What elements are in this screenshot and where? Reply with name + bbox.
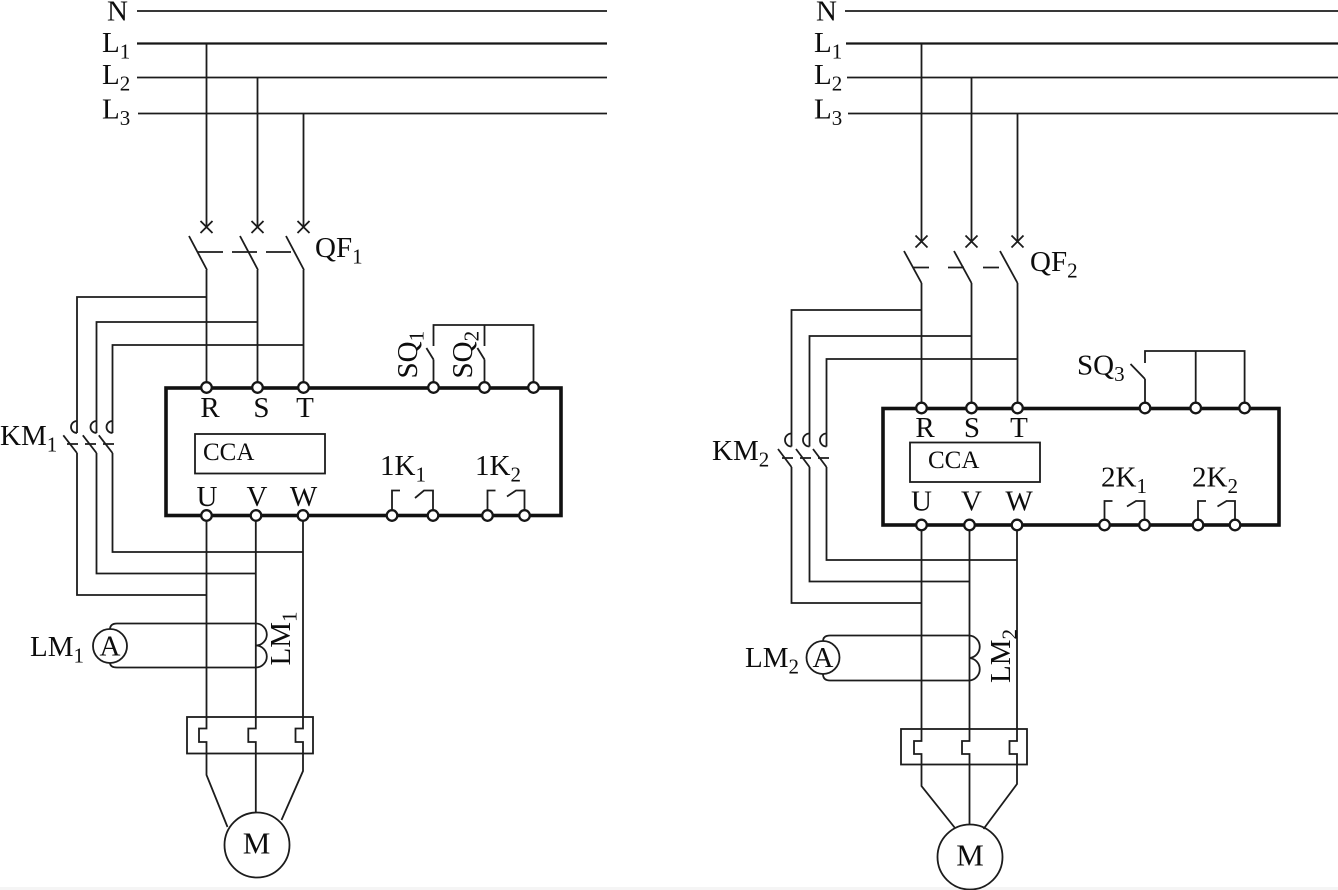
terminal 2K2 a	[1193, 520, 1204, 531]
terminal T right	[1012, 403, 1023, 414]
terminal SQ1 in	[428, 382, 439, 393]
CT loop bottom wire right	[823, 674, 970, 681]
wire L2 drop to QF2 pole 2	[971, 78, 973, 242]
QF2 pole 1 blade	[904, 251, 922, 283]
SQ1 blade	[426, 348, 433, 360]
KM1 pole 1 blade	[63, 435, 77, 453]
wire L2 drop to QF1 pole 2	[257, 78, 259, 228]
svg-text:T: T	[1010, 412, 1028, 444]
KM2 pole 2 arc	[803, 434, 809, 447]
svg-text:CCA: CCA	[203, 439, 254, 466]
QF2 pole 2 blade	[954, 251, 972, 283]
1K1 right bracket and blade	[415, 491, 433, 511]
ammeter A circle	[93, 629, 127, 663]
wire branch T-phase to KM1 pole3	[113, 345, 304, 433]
terminal 1K1 b	[428, 510, 439, 521]
page bottom edge shading	[0, 887, 1338, 890]
terminal R right	[916, 403, 927, 414]
terminal SQ3 in	[1140, 403, 1151, 414]
breaker QF2	[904, 236, 1078, 284]
contact 1K1	[380, 450, 433, 511]
KM1 pole 3 arc	[107, 421, 113, 433]
terminal W	[298, 510, 309, 521]
2K1 right bracket and blade	[1127, 501, 1145, 520]
terminal W right	[1012, 520, 1023, 531]
2K2 right bracket and blade	[1218, 501, 1236, 520]
terminal S right	[966, 403, 977, 414]
SQ3 blade	[1131, 364, 1146, 379]
KM1 pole 1 arc	[71, 421, 77, 433]
KM1 pole 3 blade	[99, 435, 113, 453]
terminal aux right	[1239, 403, 1250, 414]
KM2 pole 1 arc	[785, 434, 792, 447]
svg-text:R: R	[200, 392, 220, 424]
terminal aux in	[528, 382, 539, 393]
SQ3 lower lead	[1144, 379, 1146, 403]
wire W down with FR2 heater detour	[984, 531, 1018, 830]
terminal U	[201, 510, 212, 521]
svg-text:T: T	[296, 392, 314, 424]
motor circle	[225, 813, 290, 878]
ammeter LM2	[745, 629, 1022, 683]
wire V down with FR1 heater detour	[248, 521, 256, 813]
terminal S	[252, 382, 263, 393]
terminal T	[298, 382, 309, 393]
svg-text:A: A	[813, 642, 834, 674]
wire L1 drop to QF1 pole 1	[206, 44, 208, 228]
terminal SQ2 in	[479, 382, 490, 393]
contactor KM2	[712, 434, 834, 472]
wire branch S-phase to KM2 pole2	[810, 336, 972, 447]
terminal V	[251, 510, 262, 521]
wire QF1 pole3 out	[303, 270, 305, 383]
contact 2K2	[1192, 462, 1238, 521]
wire KM1 pole2 down	[97, 453, 256, 574]
overload relay FR1 box	[187, 717, 313, 754]
terminal 2K2 b	[1230, 520, 1241, 531]
svg-text:M: M	[956, 838, 984, 873]
breaker QF1	[189, 221, 363, 270]
terminal 1K1 a	[387, 510, 398, 521]
svg-text:W: W	[290, 481, 318, 513]
svg-text:U: U	[197, 481, 218, 513]
inverter U1 box	[166, 388, 561, 516]
limit switch SQ1	[392, 325, 534, 383]
motor M1	[225, 813, 290, 878]
KM2 pole 3 blade	[813, 449, 827, 467]
wire bus L1	[137, 42, 607, 44]
1K2 right bracket and blade	[507, 491, 525, 511]
motor M2	[938, 825, 1003, 890]
KM1 linkage dashed bar	[67, 443, 119, 445]
QF2 pole 1 cross	[916, 236, 928, 248]
SQ1 jumper wire	[434, 325, 534, 383]
wire KM2 pole1 down	[792, 467, 922, 603]
SQ2 blade	[477, 348, 484, 360]
KM1 pole 2 blade	[83, 435, 97, 453]
CCA module box (right)	[910, 443, 1040, 483]
SQ3 jumper wire	[1145, 351, 1245, 403]
wire L3 drop to QF2 pole 3	[1017, 114, 1019, 242]
QF1 linkage dashed bar	[198, 251, 296, 253]
terminal 2K1 b	[1139, 520, 1150, 531]
KM2 pole 1 blade	[778, 449, 792, 467]
wire branch S-phase to KM1 pole2	[97, 322, 258, 433]
CT winding bumps on V	[256, 624, 267, 668]
QF2 linkage dashed bar	[913, 267, 1014, 269]
terminal 1K2 b	[519, 510, 530, 521]
KM2 pole 3 arc	[820, 434, 826, 447]
svg-text:U: U	[911, 486, 932, 518]
wire bus L3	[138, 113, 607, 115]
terminal aux mid right	[1190, 403, 1201, 414]
inverter U2 box	[883, 409, 1279, 526]
wire L1 drop to QF2 pole 1	[921, 44, 923, 242]
SQ3 jumper middle lead	[1195, 351, 1197, 403]
CT loop top wire	[110, 624, 256, 630]
limit switch SQ3	[1077, 350, 1245, 404]
wire U down with FR1 heater detour	[199, 521, 228, 827]
QF2 pole 2 cross	[966, 236, 978, 248]
wire bus N	[137, 10, 607, 12]
contact 2K1	[1101, 462, 1147, 521]
wire QF2 pole1 out	[921, 283, 923, 403]
QF2 pole 3 cross	[1012, 236, 1024, 248]
overload relay FR2 box	[901, 729, 1027, 765]
contactor KM1	[0, 420, 119, 457]
svg-text:N: N	[816, 0, 837, 28]
svg-text:A: A	[100, 631, 121, 663]
wire L3 drop to QF1 pole 3	[303, 114, 305, 228]
KM2 linkage dashed bar	[782, 457, 834, 459]
SQ1 lower lead	[433, 360, 435, 383]
wire U down with FR2 heater detour	[914, 531, 955, 829]
CT loop top wire right	[823, 636, 970, 642]
SQ2 upper lead	[484, 325, 486, 346]
wire QF1 pole1 out	[206, 270, 208, 383]
wire QF2 pole2 out	[971, 283, 973, 403]
terminal 2K1 a	[1099, 520, 1110, 531]
wire bus L1 right	[846, 42, 1338, 44]
wire QF2 pole3 out	[1017, 283, 1019, 403]
terminal R	[201, 382, 212, 393]
svg-text:V: V	[247, 481, 268, 513]
wire KM1 pole3 down	[113, 453, 304, 552]
svg-text:R: R	[915, 412, 935, 444]
wire KM2 pole3 down	[827, 467, 1018, 560]
1K2 left bracket	[488, 491, 496, 511]
QF1 pole 1 blade	[189, 236, 207, 270]
terminal V right	[964, 520, 975, 531]
KM1 pole 2 arc	[91, 421, 97, 433]
limit switch SQ2	[447, 325, 485, 383]
wire KM2 pole2 down	[810, 467, 970, 582]
wire branch R-phase to KM2 pole1	[792, 310, 922, 447]
2K2 left bracket	[1198, 501, 1206, 520]
svg-text:N: N	[107, 0, 128, 28]
svg-text:CCA: CCA	[928, 447, 979, 474]
ammeter LM1	[30, 612, 302, 668]
QF1 pole 1 cross	[201, 221, 213, 233]
wire bus N right	[845, 10, 1338, 12]
QF1 pole 3 blade	[286, 236, 304, 270]
1K1 left bracket	[392, 491, 400, 511]
svg-text:S: S	[253, 392, 269, 424]
svg-text:W: W	[1005, 486, 1033, 518]
2K1 left bracket	[1105, 501, 1113, 520]
CT loop bottom wire	[110, 663, 256, 668]
ammeter A circle right	[807, 641, 840, 674]
wire branch T-phase to KM2 pole3	[827, 359, 1018, 447]
wire bus L2	[137, 77, 607, 79]
wire W down with FR1 heater detour	[282, 521, 304, 820]
CT winding bumps on V right	[970, 636, 980, 681]
CCA module box	[195, 434, 325, 474]
wire KM1 pole1 down	[77, 453, 207, 595]
svg-text:V: V	[961, 486, 982, 518]
QF1 pole 2 blade	[240, 236, 258, 270]
QF1 pole 3 cross	[298, 221, 310, 233]
KM2 pole 2 blade	[796, 449, 810, 467]
wire QF1 pole2 out	[257, 270, 259, 383]
contact 1K2	[475, 450, 525, 511]
wire bus L2 right	[847, 77, 1338, 79]
svg-text:M: M	[243, 826, 271, 861]
wire V down with FR2 heater detour	[962, 531, 970, 825]
wire bus L3 right	[848, 113, 1338, 115]
svg-text:S: S	[964, 412, 980, 444]
QF1 pole 2 cross	[252, 221, 264, 233]
motor circle right	[938, 825, 1003, 890]
wire branch R-phase to KM1 pole1	[77, 297, 207, 433]
terminal 1K2 a	[482, 510, 493, 521]
QF2 pole 3 blade	[1000, 251, 1018, 283]
SQ2 lower lead	[484, 360, 486, 383]
terminal U right	[916, 520, 927, 531]
